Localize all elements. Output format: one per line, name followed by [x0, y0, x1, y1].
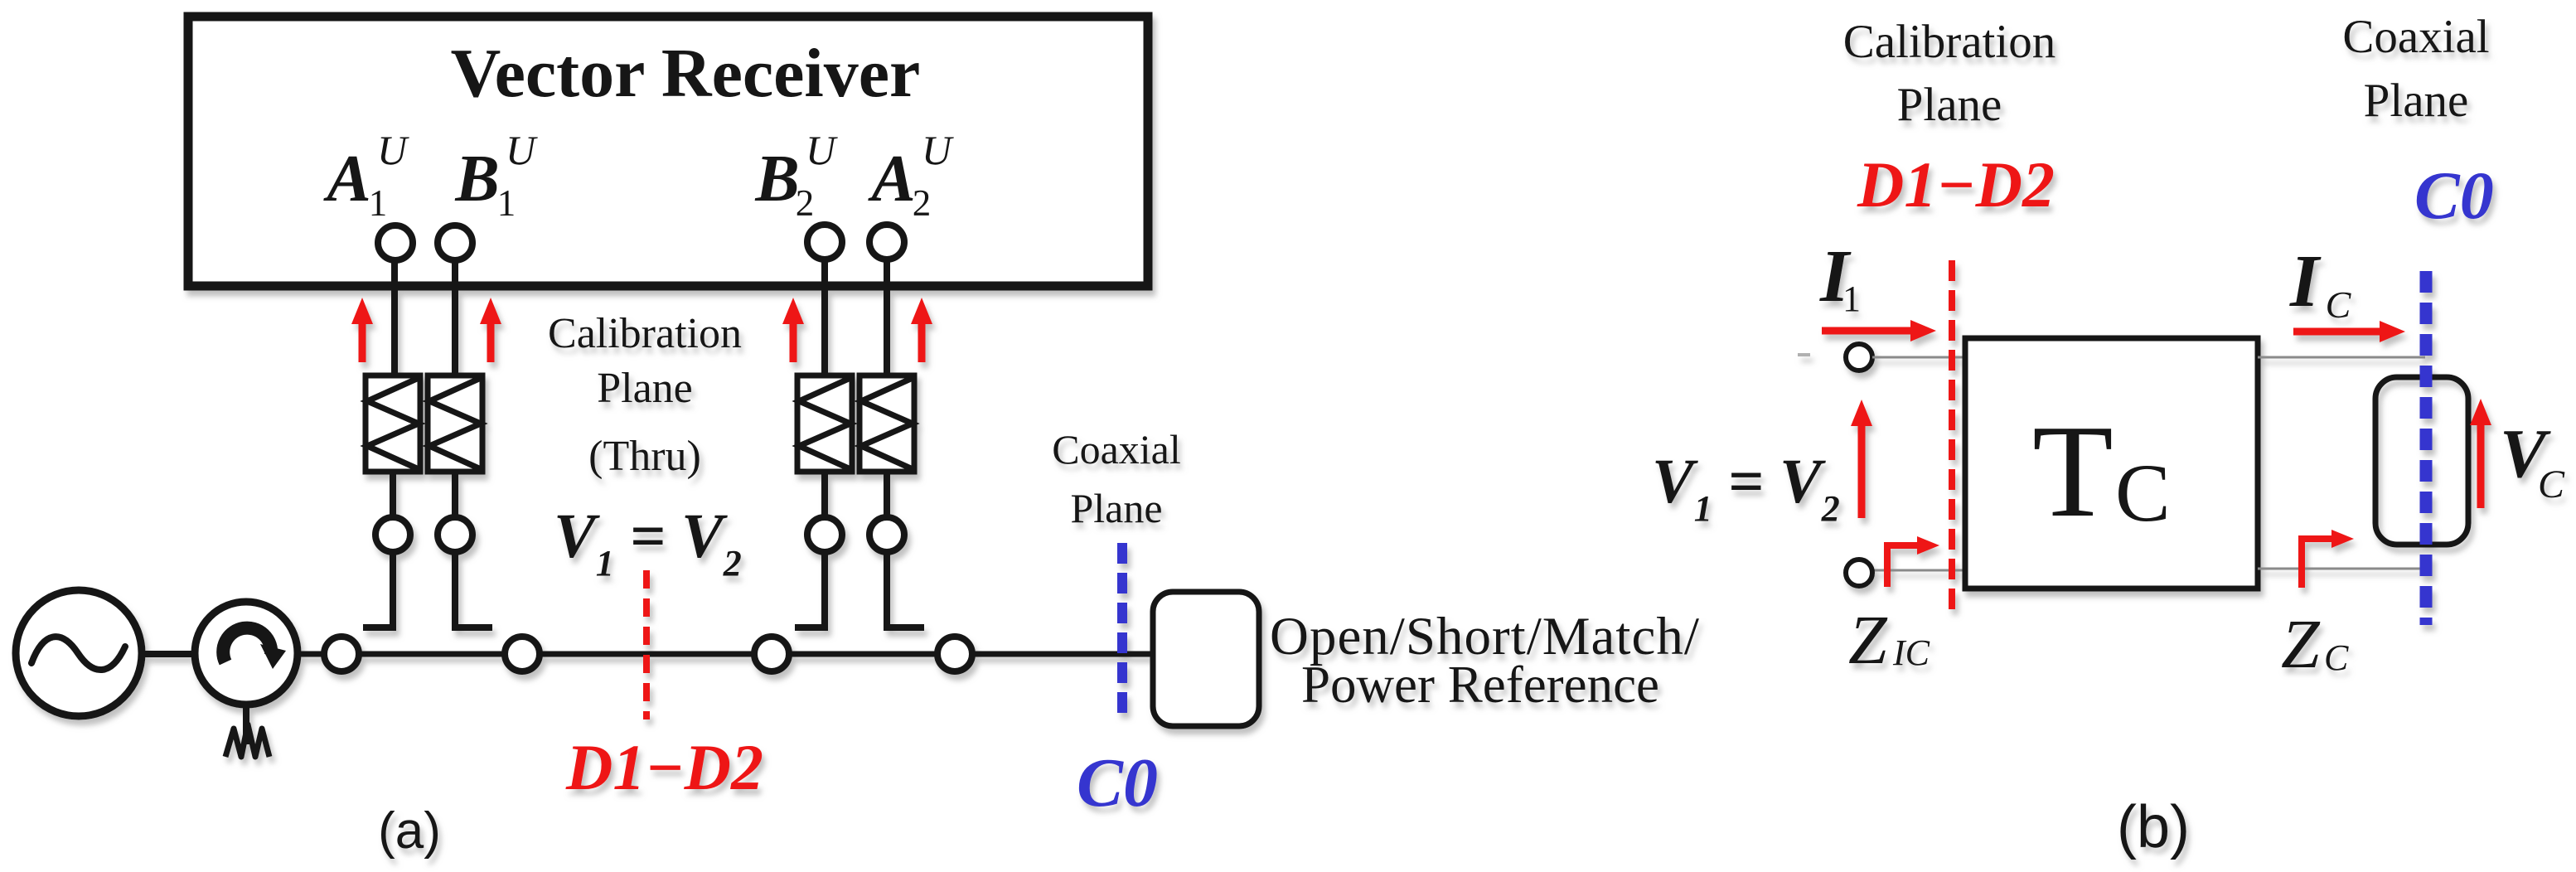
svg-text:1: 1 — [497, 182, 516, 224]
main transmission line — [297, 652, 1153, 657]
ground — [225, 724, 269, 757]
coupled arm wire 2 — [455, 553, 492, 627]
red arrow VC — [2470, 399, 2491, 508]
wire below coupler K2 — [452, 472, 458, 518]
coupler K3 — [797, 375, 852, 472]
svg-text:B: B — [454, 143, 499, 216]
vector receiver box U1 — [188, 17, 1148, 286]
svg-text:C0: C0 — [1077, 744, 1158, 821]
wire below coupler K1 — [390, 472, 396, 518]
coupler K1 — [366, 375, 420, 472]
label VC — [2500, 415, 2565, 506]
thin wire port2 to Tc — [1872, 569, 1967, 572]
svg-text:C: C — [2538, 463, 2565, 506]
svg-text:U: U — [806, 127, 838, 173]
svg-text:Z: Z — [1848, 602, 1888, 679]
connector circle below K1 — [375, 517, 410, 552]
signal source G1 — [16, 590, 142, 716]
svg-text:Plane: Plane — [1070, 485, 1162, 531]
svg-text:V1 = V2: V1 = V2 — [1652, 447, 1840, 529]
wire stub left of port1 (b) — [1798, 353, 1810, 356]
wire stem A2 — [884, 259, 890, 377]
svg-text:2: 2 — [796, 182, 815, 224]
svg-text:Z: Z — [2281, 606, 2321, 683]
port terminal circle A2 — [869, 225, 904, 259]
connector node 3 — [754, 637, 789, 671]
svg-text:C: C — [2326, 283, 2352, 326]
svg-text:Coaxial: Coaxial — [2342, 11, 2489, 63]
connector node 1 — [324, 637, 359, 671]
svg-text:A: A — [867, 143, 915, 216]
svg-text:A: A — [322, 143, 370, 216]
svg-text:Coaxial: Coaxial — [1052, 426, 1181, 472]
svg-text:Calibration: Calibration — [1843, 16, 2055, 68]
red arrow I1 — [1822, 320, 1936, 342]
label Calibration Plane (Thru) — [548, 310, 742, 480]
svg-text:C0: C0 — [2414, 157, 2494, 233]
svg-text:U: U — [922, 127, 954, 173]
terminal circle port2 (b) — [1846, 560, 1872, 586]
svg-text:D1−D2: D1−D2 — [565, 731, 763, 803]
port label B2U — [754, 127, 838, 224]
connector circle below K4 — [869, 517, 904, 552]
svg-text:Calibration: Calibration — [548, 310, 742, 357]
svg-text:T: T — [2032, 397, 2114, 545]
svg-text:2: 2 — [913, 182, 932, 224]
label Tc — [2032, 397, 2171, 545]
svg-text:D1−D2: D1−D2 — [1857, 148, 2055, 220]
label I1 — [1819, 235, 1861, 319]
red arrow up 1 — [351, 298, 373, 362]
label IC — [2289, 240, 2352, 326]
coupler K4 — [859, 375, 914, 472]
label Coaxial Plane (a) — [1052, 426, 1181, 531]
connector circle below K3 — [807, 517, 842, 552]
wire stem A1 — [391, 259, 398, 377]
port terminal circle B1 — [438, 225, 472, 260]
wire below coupler K4 — [884, 472, 890, 518]
calibration plane dashed line D1-D2 — [643, 570, 650, 719]
connector node 4 — [937, 637, 972, 671]
svg-text:IC: IC — [1892, 632, 1930, 673]
wire below coupler K3 — [821, 472, 828, 518]
svg-text:Power Reference: Power Reference — [1301, 656, 1659, 714]
load box (b) — [2375, 377, 2468, 545]
svg-text:B: B — [754, 143, 799, 216]
svg-text:U: U — [506, 127, 538, 173]
svg-text:(a): (a) — [378, 802, 441, 860]
terminal circle port1 (b) — [1846, 344, 1872, 371]
svg-text:1: 1 — [369, 182, 388, 224]
bent red arrow Z1C — [1887, 536, 1939, 587]
port terminal circle A1 — [378, 225, 413, 260]
circulator — [195, 602, 298, 705]
wire stem B1 — [452, 259, 458, 377]
port label B1U — [454, 127, 538, 224]
label Calibration Plane (b) — [1843, 16, 2055, 131]
connector node 2 — [505, 637, 540, 671]
coupled arm wire 3 — [795, 553, 825, 627]
svg-text:Vector Receiver: Vector Receiver — [451, 35, 921, 112]
coaxial plane dashed line C0 (b) — [2420, 271, 2433, 625]
thin wire port1 to Tc — [1872, 356, 1967, 359]
two-port network box Tc — [1965, 338, 2258, 589]
label ZC — [2281, 606, 2349, 683]
coaxial plane dashed line C0 (a) — [1117, 543, 1127, 716]
svg-text:C: C — [2115, 447, 2171, 539]
svg-text:C: C — [2324, 637, 2349, 678]
coupled arm wire 4 — [887, 553, 924, 627]
bent red arrow ZC — [2302, 530, 2354, 588]
label Open/Short/Match/ Power Reference — [1270, 607, 1700, 714]
red vertical arrow V (b) — [1851, 400, 1872, 518]
coupled arm wire 1 — [363, 553, 393, 627]
thin wire Tc to coax top — [2258, 356, 2425, 359]
thin wire Tc to coax bottom — [2258, 568, 2425, 570]
calibration standard box — [1153, 592, 1259, 726]
svg-text:Plane: Plane — [2364, 75, 2469, 127]
port label A1U — [322, 127, 409, 224]
label Coaxial Plane (b) — [2342, 11, 2489, 127]
red arrow up 3 — [782, 298, 804, 362]
svg-text:Plane: Plane — [597, 365, 693, 412]
svg-text:I: I — [2289, 240, 2322, 322]
wire stem B2 — [821, 259, 828, 377]
wire source to circulator — [141, 651, 199, 657]
port label A2U — [867, 127, 954, 224]
label Z1C — [1848, 602, 1930, 679]
port terminal circle B2 — [807, 225, 842, 259]
calibration plane dashed line (b) — [1949, 260, 1955, 614]
red arrow IC — [2293, 321, 2405, 342]
svg-text:(Thru): (Thru) — [588, 433, 701, 480]
coupler K2 — [428, 375, 482, 472]
red arrow up 4 — [911, 298, 932, 362]
connector circle below K2 — [438, 517, 472, 552]
svg-text:1: 1 — [1842, 279, 1861, 319]
svg-text:(b): (b) — [2117, 794, 2190, 860]
red arrow up 2 — [480, 298, 501, 362]
ground wire — [243, 705, 249, 744]
svg-text:U: U — [377, 127, 409, 173]
svg-text:Plane: Plane — [1897, 79, 2002, 131]
